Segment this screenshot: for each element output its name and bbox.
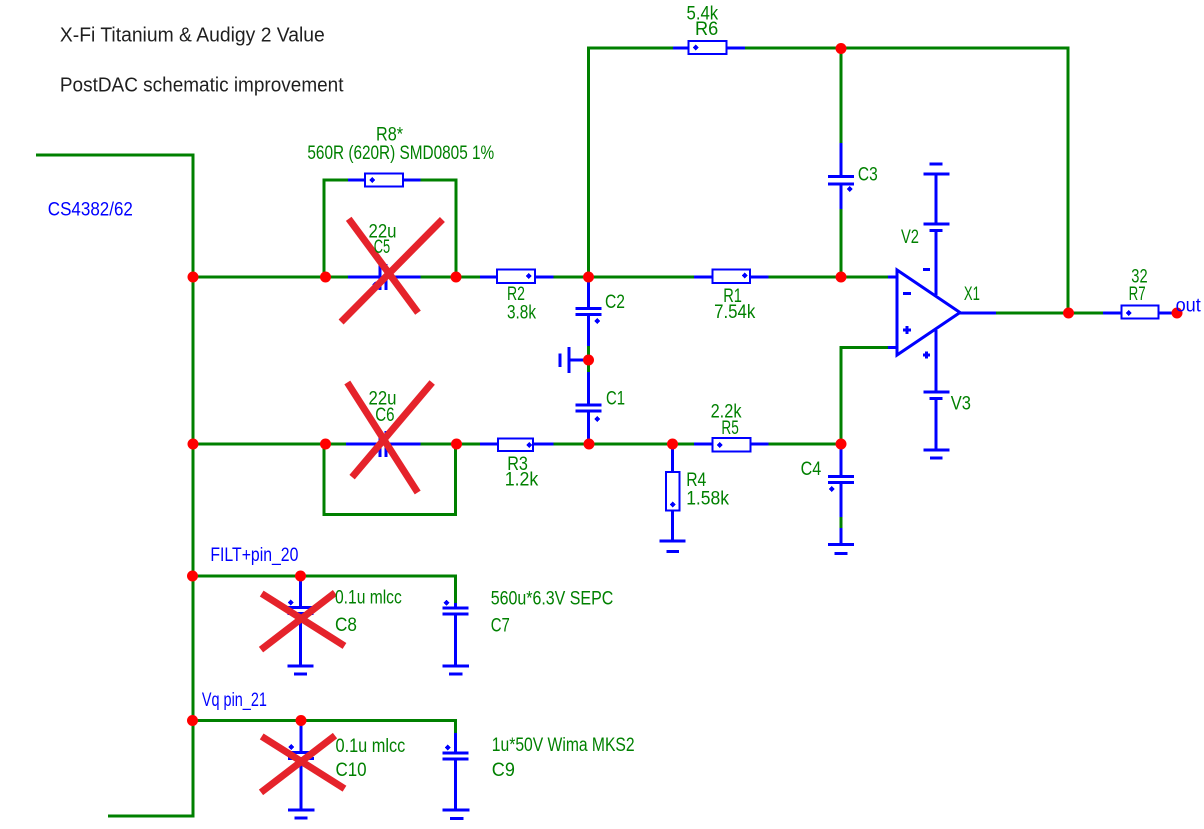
wire R8 loop top right	[421, 179, 458, 182]
capacitor C1	[576, 404, 602, 407]
node junction dot feedback top	[836, 43, 847, 54]
op-amp X1 V- pin plus mark	[923, 354, 930, 357]
node junction dot FILT C8	[295, 571, 306, 582]
wire row1 segment C5 to R2	[421, 276, 481, 279]
wire row2 segment C6 to R3	[421, 443, 481, 446]
wire C6 loop left vertical	[323, 443, 326, 517]
wire R5 left lead	[694, 443, 713, 446]
svg-text:0.1u mlcc: 0.1u mlcc	[336, 736, 406, 757]
node junction dot row2 C6 right	[451, 439, 462, 450]
capacitor C3	[828, 175, 854, 178]
wire R3 left lead	[480, 443, 498, 446]
wire C8 top lead	[299, 577, 302, 606]
node junction dot FILT left	[187, 571, 198, 582]
resistor R4 1.58k vertical	[666, 472, 680, 511]
wire V2 middle	[935, 175, 938, 223]
wire C4 bottom lead	[840, 484, 843, 517]
ground R4	[660, 540, 686, 543]
wire op-amp output lead	[958, 312, 996, 315]
wire C3 top lead	[840, 143, 843, 175]
svg-text:CS4382/62: CS4382/62	[48, 199, 133, 220]
op-amp X1 plus input symbol	[903, 329, 911, 332]
node junction dot row1 left	[188, 272, 199, 283]
wire bottom-left horizontal	[108, 815, 194, 818]
wire FILT down to C7	[454, 575, 457, 606]
wire row2 segment R3 to R5	[554, 443, 695, 446]
svg-text:R6: R6	[695, 19, 718, 40]
node junction dot row2 C6 left	[320, 439, 331, 450]
wire C7 top lead	[454, 603, 457, 607]
svg-text:PostDAC schematic improvement: PostDAC schematic improvement	[60, 74, 344, 96]
resistor R1 7.54k	[713, 270, 751, 284]
wire R4 top lead	[671, 444, 674, 472]
ground C10	[288, 809, 315, 812]
svg-text:V3: V3	[951, 393, 971, 414]
battery V3	[924, 391, 950, 394]
wire feedback right vertical	[1067, 47, 1070, 315]
capacitor C7	[443, 607, 469, 610]
wire C9 ground lead	[454, 761, 457, 809]
wire C6 right lead	[388, 443, 421, 446]
wire C4 lower short	[840, 517, 843, 528]
op-amp X1 minus input symbol	[903, 292, 911, 295]
node junction dot row1 R1 right	[836, 272, 847, 283]
wire row1 segment R1 to op-amp	[769, 276, 889, 279]
wire C9 top lead	[454, 733, 457, 752]
wire Vq down to C9	[454, 719, 457, 735]
svg-text:C1: C1	[606, 389, 625, 410]
deletion cross over C8	[262, 594, 345, 646]
resistor R8 560R	[365, 174, 403, 187]
node out terminal dot	[1172, 308, 1183, 319]
capacitor C2	[576, 307, 602, 310]
svg-text:0.1u mlcc: 0.1u mlcc	[335, 588, 402, 609]
svg-text:C7: C7	[491, 616, 510, 637]
wire R2 left lead	[480, 276, 497, 279]
capacitor C4	[828, 475, 854, 478]
connector pin stub at node A	[571, 359, 586, 362]
svg-text:V2: V2	[901, 227, 919, 248]
node junction dot row2 left	[188, 439, 199, 450]
svg-text:C6: C6	[375, 405, 394, 426]
capacitor C6 22u horizontal	[379, 431, 382, 457]
svg-text:C4: C4	[801, 459, 822, 480]
wire C2 bottom lead	[587, 316, 590, 346]
wire row1 segment node to C5	[192, 276, 349, 279]
wire R4 bottom lead	[671, 511, 674, 540]
node junction dot row1 C2	[583, 272, 594, 283]
wire R8 loop right vertical	[455, 179, 458, 279]
wire R8 loop left vertical	[323, 179, 326, 279]
capacitor C10	[288, 751, 314, 754]
capacitor C9	[443, 752, 469, 755]
wire C3 upper	[840, 47, 843, 144]
wire R1 right lead	[750, 276, 769, 279]
wire C2 top lead	[587, 277, 590, 307]
deletion cross over C10	[262, 736, 345, 788]
wire R6 top left	[587, 47, 673, 50]
resistor R7 32	[1122, 306, 1159, 319]
ground C7	[443, 665, 470, 668]
wire row1 segment R2 to R1	[554, 276, 695, 279]
svg-text:R7: R7	[1129, 284, 1146, 305]
wire C6 loop right vertical	[454, 443, 457, 517]
ground C8	[288, 665, 314, 668]
svg-text:1u*50V Wima MKS2: 1u*50V Wima MKS2	[492, 735, 635, 756]
node junction dot Vq left	[187, 715, 198, 726]
deletion cross over C6	[347, 383, 417, 493]
svg-text:X1: X1	[964, 284, 980, 305]
resistor R6 5.4k	[689, 41, 727, 54]
svg-text:C5: C5	[374, 237, 390, 258]
deletion cross over C5	[349, 219, 418, 313]
wire row2 segment node to C6	[192, 443, 347, 446]
wire Vq row horizontal	[192, 719, 458, 722]
svg-text:560R (620R) SMD0805 1%: 560R (620R) SMD0805 1%	[307, 143, 494, 164]
wire FILT row horizontal	[192, 575, 458, 578]
wire C1 top lead	[587, 372, 590, 404]
svg-text:out: out	[1176, 295, 1202, 316]
wire R6 loop left vertical	[587, 47, 590, 279]
wire R1 left lead	[694, 276, 713, 279]
svg-text:1.2k: 1.2k	[505, 469, 539, 490]
wire op-amp plus input vertical	[840, 346, 843, 444]
wire R8 right lead	[403, 179, 421, 182]
wire row2 segment R5 to node	[769, 443, 843, 446]
svg-text:1.58k: 1.58k	[686, 488, 729, 509]
wire main left vertical bus	[192, 154, 195, 818]
connector pin outer bar	[559, 354, 562, 368]
svg-text:Vq pin_21: Vq pin_21	[202, 690, 267, 711]
node junction dot row1 C5 right	[451, 272, 462, 283]
wire C8 ground lead	[299, 615, 302, 665]
svg-text:R5: R5	[721, 418, 738, 439]
wire op-amp plus input lead	[888, 346, 899, 349]
wire V3 to ground	[935, 400, 938, 450]
svg-text:C10: C10	[336, 760, 367, 781]
wire C4 ground lead	[840, 528, 843, 543]
wire R7 left lead	[1103, 312, 1122, 315]
wire V3 from op-amp	[935, 330, 938, 391]
node junction dot row1 C5 left	[320, 272, 331, 283]
svg-text:3.8k: 3.8k	[507, 303, 536, 324]
wire C6 loop bottom	[323, 513, 458, 516]
svg-text:C8: C8	[335, 615, 357, 636]
ground C4	[828, 543, 854, 546]
svg-text:C9: C9	[492, 760, 515, 781]
wire V2 to op-amp	[935, 232, 938, 295]
wire op-amp plus input horizontal	[840, 346, 890, 349]
wire C5 right lead	[388, 276, 421, 279]
wire R7 right lead	[1159, 312, 1178, 315]
svg-text:7.54k: 7.54k	[714, 302, 756, 323]
wire C1 bottom lead	[587, 413, 590, 445]
svg-text:C3: C3	[858, 165, 878, 186]
wire R6 left lead	[673, 47, 689, 50]
wire top-left horizontal from DAC	[36, 154, 195, 157]
wire R8 loop top left	[323, 179, 349, 182]
node junction dot output	[1063, 308, 1074, 319]
wire op-amp minus input lead	[888, 276, 899, 279]
node junction dot row2 right	[836, 439, 847, 450]
node junction dot row2 R4	[667, 439, 678, 450]
wire C3 bottom lead	[840, 185, 843, 210]
svg-text:C2: C2	[605, 292, 625, 313]
wire C10 ground lead	[300, 760, 303, 809]
resistor R5 2.2k	[713, 438, 751, 452]
battery V2	[930, 163, 943, 166]
wire C4 top lead	[840, 444, 843, 475]
ground C9	[443, 809, 470, 812]
wire R3 right lead	[533, 443, 554, 446]
wire R8 left lead	[348, 179, 365, 182]
wire R6 top right	[745, 47, 1068, 50]
wire C7 ground lead	[454, 616, 457, 665]
node A dot between C2 C1	[583, 355, 594, 366]
node junction dot row2 C1	[584, 439, 595, 450]
wire output to R7	[996, 312, 1103, 315]
resistor R2 3.8k	[497, 270, 535, 284]
op-amp X1 V+ pin minus mark	[923, 268, 930, 271]
wire R6 right lead	[727, 47, 746, 50]
op-amp X1 triangle	[897, 270, 960, 355]
svg-text:FILT+pin_20: FILT+pin_20	[210, 545, 298, 566]
node junction dot Vq C10	[296, 715, 307, 726]
capacitor C8	[288, 606, 314, 609]
wire node A short vertical at C2-C1	[587, 345, 590, 374]
capacitor C5 22u horizontal	[379, 264, 382, 290]
wire C3 lower	[840, 209, 843, 279]
resistor R3 1.2k	[498, 439, 533, 452]
wire C5 left lead	[348, 276, 379, 279]
connector pin T-bar	[568, 347, 571, 373]
wire C10 top lead	[300, 721, 303, 751]
wire R2 right lead	[535, 276, 554, 279]
wire R5 right lead	[751, 443, 769, 446]
svg-text:560u*6.3V SEPC: 560u*6.3V SEPC	[491, 589, 614, 610]
ground V3	[924, 449, 950, 452]
svg-text:X-Fi Titanium & Audigy 2 Value: X-Fi Titanium & Audigy 2 Value	[60, 25, 325, 47]
wire C6 left lead	[346, 443, 379, 446]
